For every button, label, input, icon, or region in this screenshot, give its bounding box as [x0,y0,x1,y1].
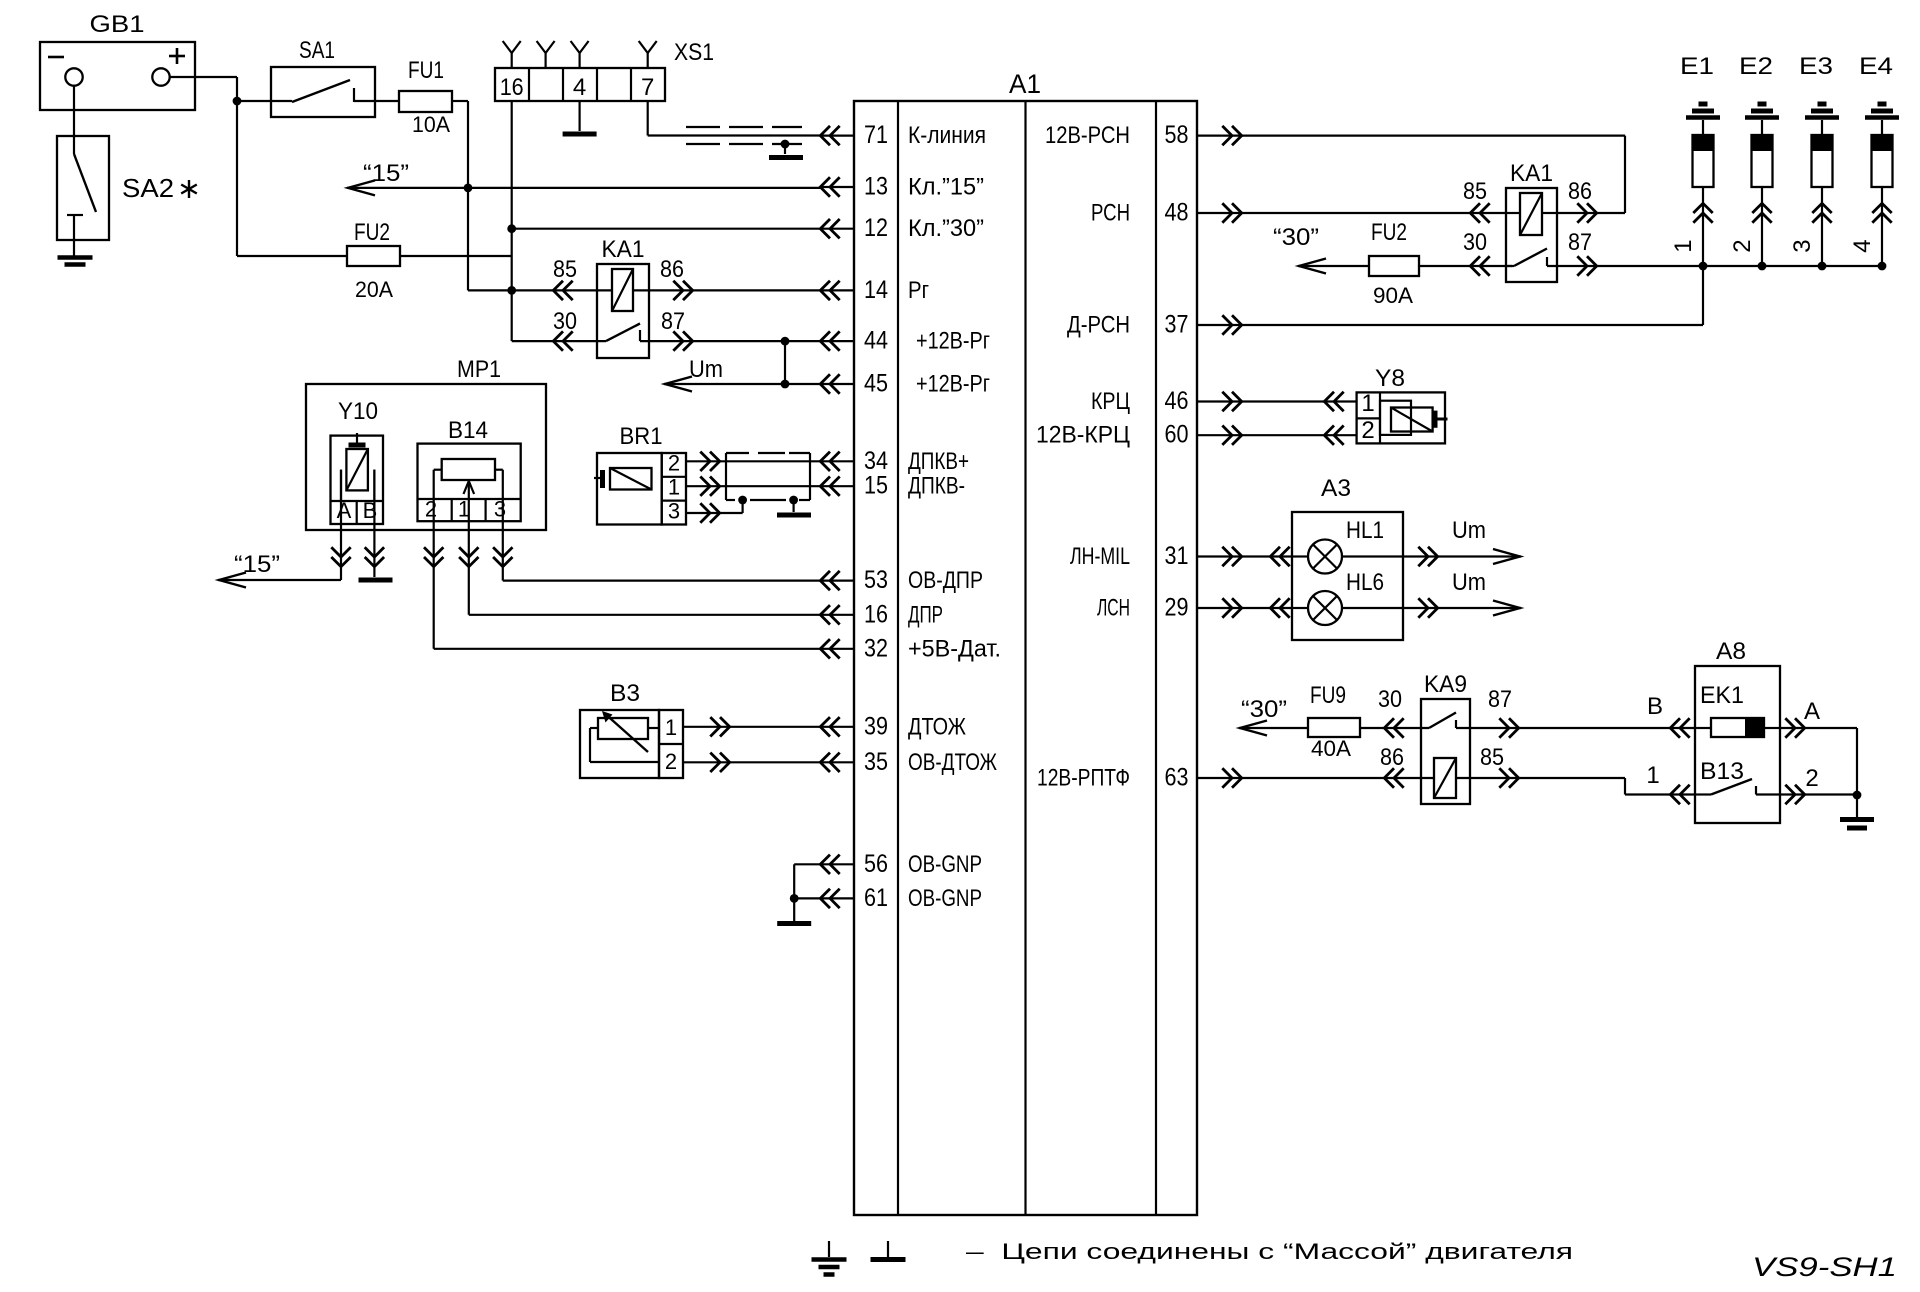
svg-text:A8: A8 [1716,638,1746,665]
svg-text:63: 63 [1165,764,1189,792]
svg-text:ОВ-GNP: ОВ-GNP [908,885,982,912]
svg-text:34: 34 [864,447,888,475]
svg-text:85: 85 [1463,178,1487,205]
svg-text:86: 86 [1380,744,1404,771]
svg-text:1: 1 [665,715,677,740]
svg-text:E3: E3 [1799,53,1833,80]
svg-text:2: 2 [1729,239,1756,252]
svg-text:“15”: “15” [363,160,409,187]
svg-text:B3: B3 [610,680,640,707]
svg-text:EK1: EK1 [1700,682,1744,709]
svg-text:“15”: “15” [234,551,280,578]
svg-text:РСН: РСН [1091,200,1130,227]
svg-text:45: 45 [864,370,888,398]
svg-text:1: 1 [1646,762,1659,789]
svg-text:FU2: FU2 [354,219,390,246]
svg-text:ОВ-ДПР: ОВ-ДПР [908,567,983,594]
svg-text:ОВ-GNP: ОВ-GNP [908,851,982,878]
svg-text:35: 35 [864,748,888,776]
svg-text:HL6: HL6 [1346,569,1384,596]
svg-text:60: 60 [1165,421,1189,449]
svg-text:48: 48 [1165,199,1189,227]
svg-text:Um: Um [689,356,723,383]
svg-text:GB1: GB1 [90,11,145,38]
svg-text:Кл.”15”: Кл.”15” [908,174,984,201]
svg-text:KA1: KA1 [1510,160,1553,187]
svg-text:1: 1 [1670,239,1697,252]
svg-text:К-линия: К-линия [908,122,986,149]
svg-text:Рг: Рг [908,277,929,304]
svg-text:ОВ-ДТОЖ: ОВ-ДТОЖ [908,749,997,776]
svg-text:90A: 90A [1373,283,1413,308]
svg-text:32: 32 [864,634,888,662]
svg-text:2: 2 [1361,417,1374,444]
svg-text:ДПКВ-: ДПКВ- [908,473,965,500]
svg-text:BR1: BR1 [620,423,663,450]
svg-text:KA9: KA9 [1424,671,1467,698]
svg-text:85: 85 [553,256,577,283]
svg-text:– Цепи соединены с “Массой: – Цепи соединены с “Массой” двигателя [966,1239,1573,1264]
svg-text:1: 1 [1361,390,1374,417]
svg-text:4: 4 [1849,239,1876,252]
svg-text:Y8: Y8 [1375,365,1405,392]
svg-text:39: 39 [864,712,888,740]
svg-text:13: 13 [864,173,888,201]
svg-text:87: 87 [1488,686,1512,713]
svg-text:30: 30 [1378,686,1402,713]
svg-text:12В-КРЦ: 12В-КРЦ [1036,422,1130,449]
svg-text:12В-РПТФ: 12В-РПТФ [1037,765,1130,792]
svg-text:+12В-Рг: +12В-Рг [916,371,990,398]
svg-text:30: 30 [1463,229,1487,256]
svg-text:FU9: FU9 [1310,682,1346,709]
svg-text:FU1: FU1 [408,57,444,84]
svg-text:46: 46 [1165,387,1189,415]
svg-text:B14: B14 [448,417,488,444]
svg-text:ДТОЖ: ДТОЖ [908,713,966,740]
svg-text:16: 16 [500,74,524,101]
svg-text:1: 1 [668,475,680,500]
svg-text:87: 87 [1568,229,1592,256]
svg-text:ДПКВ+: ДПКВ+ [908,448,969,475]
svg-text:A: A [337,498,352,523]
svg-text:ЛСН: ЛСН [1097,595,1130,622]
svg-text:A: A [1804,698,1820,725]
svg-text:MP1: MP1 [457,356,501,383]
svg-text:58: 58 [1165,121,1189,149]
svg-text:Д-РСН: Д-РСН [1067,312,1130,339]
svg-text:+5В-Дат.: +5В-Дат. [908,635,1001,662]
svg-text:2: 2 [425,497,437,522]
svg-text:10A: 10A [412,112,450,137]
svg-text:29: 29 [1165,594,1189,622]
svg-text:4: 4 [573,74,586,101]
svg-text:Y10: Y10 [338,398,378,425]
svg-text:KA1: KA1 [602,236,645,263]
svg-text:A1: A1 [1009,69,1041,99]
svg-text:3: 3 [494,497,506,522]
svg-text:Um: Um [1452,569,1486,596]
svg-text:37: 37 [1165,311,1189,339]
svg-text:71: 71 [864,121,888,149]
svg-text:12: 12 [864,214,888,242]
svg-text:Кл.”30”: Кл.”30” [908,215,984,242]
svg-text:HL1: HL1 [1346,517,1384,544]
svg-text:E4: E4 [1859,53,1893,80]
svg-text:86: 86 [660,256,684,283]
svg-text:85: 85 [1480,744,1504,771]
svg-text:“30”: “30” [1273,224,1319,251]
svg-text:E1: E1 [1680,53,1714,80]
svg-text:2: 2 [1805,765,1818,792]
svg-text:7: 7 [641,74,654,101]
svg-text:A3: A3 [1321,475,1351,502]
svg-text:3: 3 [668,499,680,524]
svg-text:B13: B13 [1700,758,1744,785]
svg-text:SA2: SA2 [122,173,174,203]
svg-text:+12В-Рг: +12В-Рг [916,328,990,355]
svg-text:XS1: XS1 [674,39,714,66]
svg-text:15: 15 [864,472,888,500]
svg-text:КРЦ: КРЦ [1091,388,1130,415]
svg-text:Um: Um [1452,517,1486,544]
svg-text:VS9-SH1: VS9-SH1 [1752,1252,1897,1282]
svg-text:31: 31 [1165,542,1189,570]
svg-text:B: B [1647,693,1663,720]
svg-text:61: 61 [864,884,888,912]
svg-text:2: 2 [668,451,680,476]
svg-text:14: 14 [864,276,888,304]
svg-text:56: 56 [864,850,888,878]
svg-text:12В-РСН: 12В-РСН [1045,122,1130,149]
svg-text:E2: E2 [1739,53,1773,80]
svg-text:ДПР: ДПР [908,601,943,628]
svg-text:53: 53 [864,566,888,594]
svg-text:86: 86 [1568,178,1592,205]
svg-text:16: 16 [864,600,888,628]
svg-text:40A: 40A [1311,736,1351,761]
svg-text:3: 3 [1789,239,1816,252]
svg-text:20A: 20A [355,277,393,302]
svg-text:87: 87 [661,308,685,335]
svg-text:44: 44 [864,327,888,355]
svg-text:FU2: FU2 [1371,219,1407,246]
svg-text:2: 2 [665,749,677,774]
svg-text:“30”: “30” [1241,696,1287,723]
svg-text:ЛН-MIL: ЛН-MIL [1070,543,1130,570]
svg-text:SA1: SA1 [299,37,335,64]
svg-text:30: 30 [553,308,577,335]
